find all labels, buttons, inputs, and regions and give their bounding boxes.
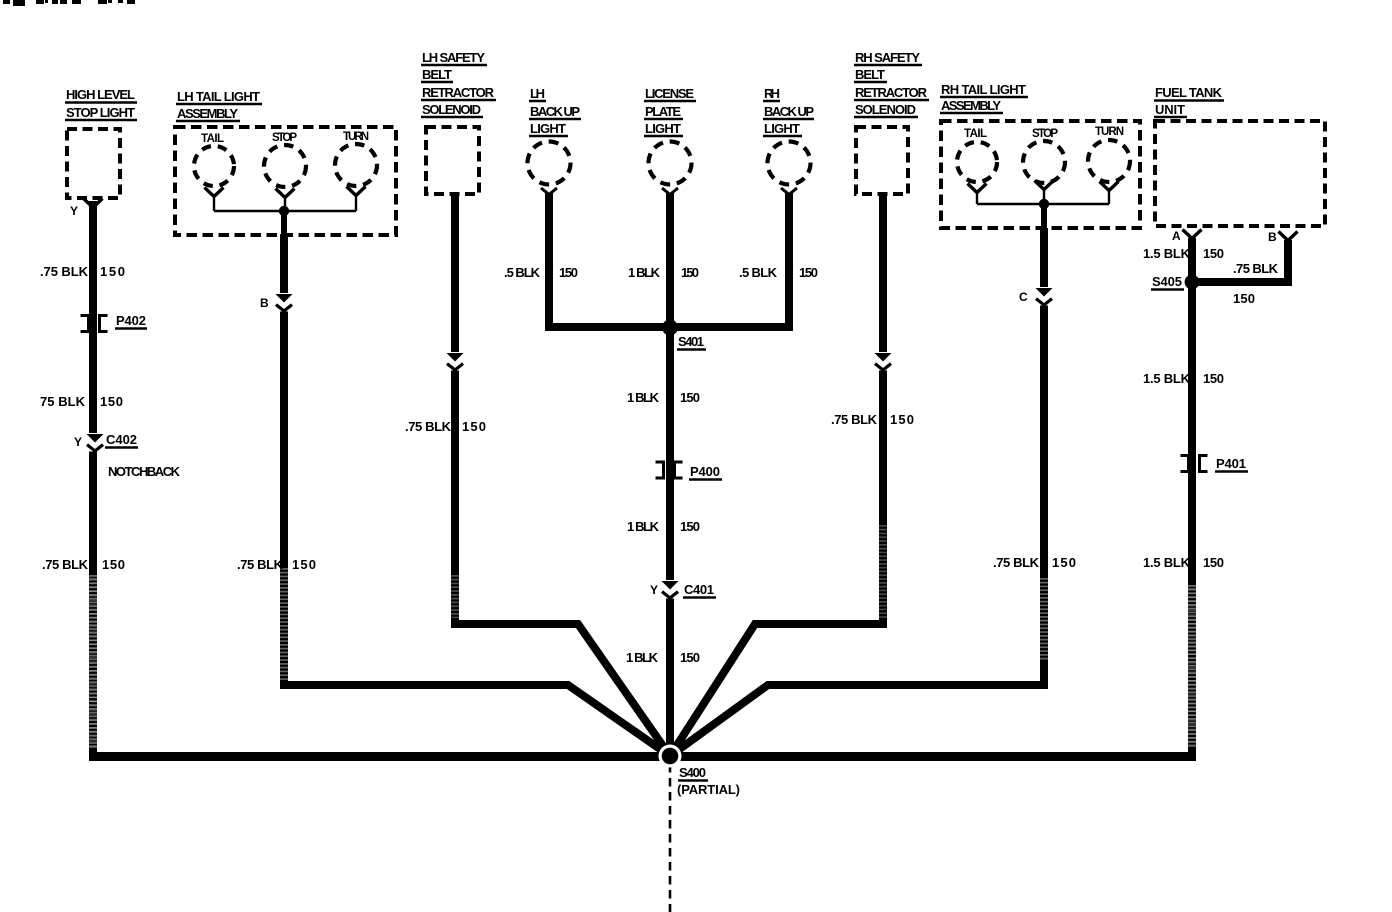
svg-text:BACK UP: BACK UP bbox=[764, 104, 814, 119]
svg-text:1 BLK: 1 BLK bbox=[626, 650, 659, 665]
connector on RH solenoid wire bbox=[874, 352, 893, 371]
svg-text:LICENSE: LICENSE bbox=[645, 86, 694, 101]
LH tail light assembly box bbox=[175, 127, 396, 235]
svg-text:STOP: STOP bbox=[1032, 128, 1058, 140]
RH tail light assembly label bbox=[940, 82, 1028, 113]
svg-text:1 BLK: 1 BLK bbox=[627, 390, 660, 405]
wire label .5 BLK 150 (RH backup) bbox=[739, 265, 818, 280]
svg-text:BACK UP: BACK UP bbox=[530, 104, 580, 119]
LH safety belt retractor solenoid label bbox=[421, 50, 496, 117]
wire: LH tail light ground, down then right then diagonal to S400 bbox=[284, 234, 670, 756]
wire label 1.5 BLK 150 (fuel A upper) bbox=[1143, 246, 1224, 261]
figure title (cut off at top edge) bbox=[3, 0, 135, 6]
svg-text:150: 150 bbox=[1203, 555, 1224, 570]
high level stop light label bbox=[65, 87, 137, 120]
wire wear speckle overlays (scan fading) bbox=[93, 525, 1192, 748]
connector B on LH tail wire bbox=[275, 293, 294, 312]
svg-text:RH TAIL LIGHT: RH TAIL LIGHT bbox=[941, 82, 1026, 97]
wire: ground bus to S400 bbox=[89, 752, 1196, 761]
wire label 1 BLK 150 (license 3rd) bbox=[627, 519, 700, 534]
svg-text:PLATE: PLATE bbox=[645, 104, 681, 119]
splice S400 node bbox=[659, 745, 741, 798]
svg-text:ASSEMBLY: ASSEMBLY bbox=[941, 98, 1001, 113]
connector C401 bbox=[650, 580, 716, 599]
fuel tank unit label bbox=[1154, 85, 1224, 117]
high level stop light box bbox=[67, 129, 120, 198]
wire: S400 dashed extension below bbox=[669, 764, 672, 912]
license plate lamp bbox=[649, 142, 692, 185]
svg-text:LIGHT: LIGHT bbox=[645, 121, 681, 136]
svg-text:C402: C402 bbox=[106, 432, 137, 447]
svg-text:75 BLK: 75 BLK bbox=[40, 394, 86, 409]
RH tail light assembly box bbox=[941, 121, 1140, 228]
svg-text:C: C bbox=[1019, 290, 1028, 304]
svg-text:S401: S401 bbox=[678, 334, 704, 349]
RH safety belt solenoid box bbox=[856, 127, 908, 194]
wire label .75 BLK 150 (RH tail) bbox=[993, 555, 1076, 570]
wire label .75 BLK 150 (LH tail) bbox=[237, 557, 316, 572]
terminal Y of stop light bbox=[84, 199, 103, 208]
svg-text:.75 BLK: .75 BLK bbox=[237, 557, 284, 572]
svg-text:RH: RH bbox=[764, 86, 780, 101]
splice S405 bbox=[1151, 274, 1199, 290]
svg-text:1.5 BLK: 1.5 BLK bbox=[1143, 555, 1191, 570]
svg-text:150: 150 bbox=[1052, 555, 1076, 570]
RH back up lamp bbox=[768, 142, 811, 185]
svg-text:Y: Y bbox=[70, 204, 78, 218]
svg-text:C401: C401 bbox=[684, 582, 714, 597]
svg-text:SOLENOID: SOLENOID bbox=[422, 102, 481, 117]
svg-text:SOLENOID: SOLENOID bbox=[855, 102, 916, 117]
fuel tank unit box bbox=[1155, 121, 1325, 226]
svg-text:1.5 BLK: 1.5 BLK bbox=[1143, 371, 1191, 386]
svg-text:.75 BLK: .75 BLK bbox=[405, 419, 452, 434]
wire: license plate light ground, vertical through S401 to S400 bbox=[666, 193, 674, 758]
svg-text:S400: S400 bbox=[679, 765, 706, 780]
svg-text:150: 150 bbox=[559, 265, 578, 280]
wire: high level stop light ground, vertical to bus bbox=[89, 201, 97, 760]
svg-text:.75 BLK: .75 BLK bbox=[40, 264, 89, 279]
RH lamp terminals and internal tie bbox=[968, 181, 1119, 205]
wire: RH tail assembly internal drop bbox=[1041, 204, 1047, 232]
svg-text:(PARTIAL): (PARTIAL) bbox=[677, 782, 740, 797]
LH back up light label bbox=[529, 86, 581, 136]
terminal B of fuel tank unit bbox=[1279, 232, 1298, 241]
LH tail light assembly label bbox=[176, 89, 262, 121]
svg-text:RH SAFETY: RH SAFETY bbox=[855, 50, 920, 65]
RH back up light label bbox=[763, 86, 814, 136]
connector on LH solenoid wire bbox=[446, 352, 465, 371]
svg-text:150: 150 bbox=[799, 265, 818, 280]
wire label .75 BLK 150 (stop light upper) bbox=[40, 264, 125, 279]
svg-text:150: 150 bbox=[890, 412, 914, 427]
wire: RH tail light ground, down then left then diagonal to S400 bbox=[670, 228, 1044, 756]
svg-text:ASSEMBLY: ASSEMBLY bbox=[177, 106, 238, 121]
svg-text:150: 150 bbox=[680, 519, 700, 534]
svg-text:BELT: BELT bbox=[855, 67, 885, 82]
svg-text:STOP LIGHT: STOP LIGHT bbox=[66, 105, 135, 120]
svg-text:BELT: BELT bbox=[422, 67, 452, 82]
svg-text:150: 150 bbox=[102, 557, 125, 572]
svg-text:B: B bbox=[1268, 230, 1277, 244]
svg-text:.5 BLK: .5 BLK bbox=[739, 265, 778, 280]
svg-text:150: 150 bbox=[1203, 371, 1224, 386]
svg-text:B: B bbox=[260, 296, 269, 310]
svg-text:LH TAIL LIGHT: LH TAIL LIGHT bbox=[177, 89, 260, 104]
svg-text:LIGHT: LIGHT bbox=[530, 121, 566, 136]
connector C402 bbox=[74, 432, 138, 452]
wire label 75 BLK 150 (stop light mid) bbox=[40, 394, 123, 409]
wire: RH safety belt retractor solenoid ground bbox=[670, 192, 883, 756]
wire label 1 BLK 150 (license upper) bbox=[628, 265, 699, 280]
svg-text:TURN: TURN bbox=[1095, 126, 1124, 138]
wire label .75 BLK / 150 (fuel B) bbox=[1233, 261, 1279, 306]
svg-text:150: 150 bbox=[680, 390, 700, 405]
svg-text:150: 150 bbox=[1203, 246, 1224, 261]
wire: fuel tank unit A ground to bus bbox=[1188, 238, 1196, 760]
RH safety belt retractor solenoid label bbox=[854, 50, 929, 117]
svg-text:HIGH LEVEL: HIGH LEVEL bbox=[66, 87, 135, 102]
svg-text:STOP: STOP bbox=[272, 132, 297, 144]
license plate light label bbox=[644, 86, 696, 136]
LH back up lamp bbox=[528, 142, 571, 185]
LH safety belt solenoid box bbox=[426, 127, 479, 194]
svg-text:TAIL: TAIL bbox=[964, 128, 987, 140]
svg-text:1 BLK: 1 BLK bbox=[627, 519, 660, 534]
wire label 1.5 BLK 150 (fuel A lower) bbox=[1143, 555, 1224, 570]
wire label .75 BLK 150 (LH solenoid) bbox=[405, 419, 486, 434]
svg-text:150: 150 bbox=[462, 419, 486, 434]
wire label .5 BLK 150 (LH backup) bbox=[504, 265, 578, 280]
svg-text:RETRACTOR: RETRACTOR bbox=[422, 85, 495, 100]
wire label .75 BLK 150 (RH solenoid) bbox=[831, 412, 914, 427]
svg-text:NOTCHBACK: NOTCHBACK bbox=[108, 464, 181, 479]
svg-text:RETRACTOR: RETRACTOR bbox=[855, 85, 928, 100]
svg-text:UNIT: UNIT bbox=[1155, 102, 1185, 117]
svg-text:FUEL TANK: FUEL TANK bbox=[1155, 85, 1223, 100]
svg-text:S405: S405 bbox=[1152, 274, 1182, 289]
svg-text:Y: Y bbox=[74, 435, 82, 449]
LH tail assembly splice dot bbox=[279, 206, 289, 216]
wire: LH safety belt retractor solenoid ground bbox=[455, 192, 670, 756]
svg-text:150: 150 bbox=[292, 557, 316, 572]
wire: fuel tank unit B to S405 bbox=[1192, 240, 1288, 282]
svg-text:.5 BLK: .5 BLK bbox=[504, 265, 541, 280]
svg-text:A: A bbox=[1172, 229, 1181, 243]
wire: LH backup to RH backup via S401 bbox=[549, 193, 789, 327]
connector P401 bbox=[1181, 456, 1249, 472]
svg-text:.75 BLK: .75 BLK bbox=[42, 557, 89, 572]
svg-text:P401: P401 bbox=[1216, 456, 1246, 471]
RH tail assembly splice dot bbox=[1039, 199, 1049, 209]
wire label 1 BLK 150 (license lower) bbox=[626, 650, 700, 665]
svg-text:LH SAFETY: LH SAFETY bbox=[422, 50, 485, 65]
svg-text:150: 150 bbox=[681, 265, 699, 280]
svg-text:1.5 BLK: 1.5 BLK bbox=[1143, 246, 1191, 261]
svg-text:Y: Y bbox=[650, 583, 658, 597]
terminal A of fuel tank unit bbox=[1183, 230, 1202, 239]
connector C on RH tail wire bbox=[1035, 287, 1054, 306]
wire label .75 BLK 150 (stop light lower) bbox=[42, 557, 125, 572]
LH lamp terminals and internal tie bbox=[205, 187, 366, 212]
svg-text:.75 BLK: .75 BLK bbox=[1233, 261, 1279, 276]
svg-text:TURN: TURN bbox=[343, 131, 369, 143]
connector P402 bbox=[81, 313, 148, 332]
wire label 1 BLK 150 (license 2nd) bbox=[627, 390, 700, 405]
svg-text:P400: P400 bbox=[690, 464, 720, 479]
svg-text:150: 150 bbox=[100, 394, 123, 409]
wire label 1.5 BLK 150 (fuel A mid) bbox=[1143, 371, 1224, 386]
svg-text:150: 150 bbox=[1233, 291, 1255, 306]
svg-text:.75 BLK: .75 BLK bbox=[831, 412, 878, 427]
svg-text:TAIL: TAIL bbox=[201, 133, 224, 145]
svg-text:.75 BLK: .75 BLK bbox=[993, 555, 1040, 570]
svg-text:LH: LH bbox=[530, 86, 545, 101]
wire: LH tail assembly internal drop bbox=[281, 211, 287, 238]
svg-text:1 BLK: 1 BLK bbox=[628, 265, 661, 280]
svg-text:150: 150 bbox=[100, 264, 125, 279]
splice S401 bbox=[662, 320, 706, 350]
svg-text:LIGHT: LIGHT bbox=[764, 121, 800, 136]
connector P400 bbox=[656, 462, 723, 480]
svg-text:150: 150 bbox=[680, 650, 700, 665]
svg-text:P402: P402 bbox=[116, 313, 146, 328]
